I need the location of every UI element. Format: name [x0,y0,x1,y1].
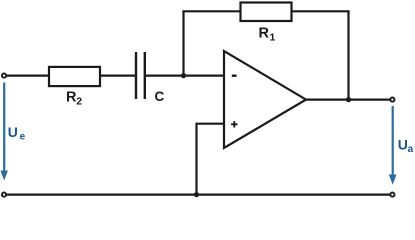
wire op-amp output to output terminal [305,98,390,100]
label Ue [8,124,26,143]
arrow Ue [0,83,8,181]
capacitor C [136,52,145,99]
svg-text:U: U [8,124,18,140]
output terminal top right [390,98,394,102]
resistor R2 [49,67,100,86]
wire down to output node [347,11,349,99]
label R1 [259,25,276,43]
svg-text:a: a [408,144,414,155]
label R2 [66,90,82,108]
bottom return wire [5,194,391,196]
wire junction up to top rail [182,11,184,76]
svg-text:2: 2 [76,96,82,108]
inverting input marker - [232,74,237,76]
wire input terminal to R2 [6,74,49,76]
input terminal top left [2,74,6,78]
wire R2 to capacitor C [100,74,135,76]
op-amp U1 [224,51,306,148]
wire R1 to right corner [292,10,350,12]
label Ua [398,137,414,156]
svg-text:1: 1 [270,31,276,43]
wire top rail to R1 [182,10,240,12]
resistor R1 [241,3,292,22]
svg-text:C: C [155,89,165,104]
non-inverting input marker + [231,121,237,127]
node feedback junction [181,73,186,78]
output terminal bottom right [390,193,394,197]
wire C to op-amp inverting input [146,74,225,76]
node output junction [346,97,351,102]
svg-text:U: U [398,137,408,153]
node bottom junction [194,192,199,197]
input terminal bottom left [2,193,6,197]
arrow Ua [389,106,397,185]
svg-text:R: R [259,25,270,41]
svg-text:e: e [20,132,26,143]
wire non-inverting input to bottom rail [197,124,226,195]
